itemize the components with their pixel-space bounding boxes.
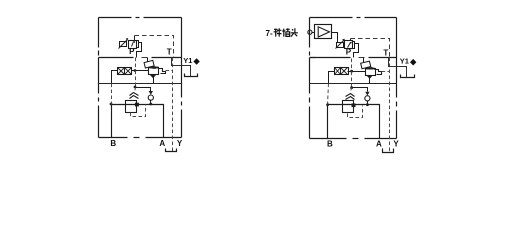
outer enclosure boundary box (right block) bbox=[310, 17, 353, 19]
svg-text:Y1: Y1 bbox=[400, 57, 409, 66]
relief valve drain line with arrow (left block) bbox=[153, 75, 155, 84]
pilot line down to spring chamber (right block) bbox=[351, 72, 353, 88]
pilot relief valve supply stub (right block) bbox=[363, 58, 365, 63]
dashed pilot section box (right block) bbox=[351, 39, 390, 58]
Y drain dashed line (left block) bbox=[172, 58, 174, 152]
pilot relief valve tilted pilot box (right block) bbox=[361, 61, 371, 69]
junction dot at check valve outlet (left block) bbox=[149, 103, 152, 106]
check valve branch wire (right block) bbox=[352, 88, 368, 92]
solenoid actuator of pilot valve (right block) bbox=[337, 43, 344, 48]
pilot line from gallery to B branch (right block) bbox=[328, 84, 329, 105]
svg-text:Y1: Y1 bbox=[183, 56, 192, 65]
counterbalance pilot loop (right block) bbox=[348, 106, 363, 118]
junction dot at spring pilot node (right block) bbox=[350, 86, 353, 89]
check valve branch wire (left block) bbox=[136, 88, 151, 92]
pilot relief valve spring steps (right block) bbox=[375, 70, 382, 75]
orifice left lead wire (right block) bbox=[329, 72, 335, 84]
svg-text:B: B bbox=[327, 140, 333, 149]
pilot line from gallery to B branch (left block) bbox=[111, 84, 113, 105]
junction dot at orifice outlet (left block) bbox=[134, 69, 137, 72]
left-edge patch wires (right block) bbox=[310, 57, 316, 59]
pilot relief valve body (left block) bbox=[149, 68, 159, 75]
svg-text:A: A bbox=[376, 140, 382, 149]
Y drain dashed line (right block) bbox=[389, 58, 391, 152]
B port stem (right block) bbox=[327, 105, 329, 139]
diamond marker next to Y1 (left block) bbox=[193, 58, 199, 65]
check valve ball and seat (right block) bbox=[365, 92, 369, 96]
counterbalance valve body (right block) bbox=[343, 101, 354, 113]
svg-text:Y: Y bbox=[393, 140, 399, 149]
P-T supply line (right block) bbox=[310, 57, 351, 59]
pilot relief valve body (right block) bbox=[366, 69, 376, 76]
counterbalance pilot loop (left block) bbox=[131, 105, 146, 117]
amplifier U1 box bbox=[315, 25, 332, 39]
relief valve outlet dashed line (right block) bbox=[382, 71, 390, 73]
svg-text:Y: Y bbox=[177, 139, 183, 148]
label glyph 插 bbox=[282, 28, 290, 36]
counterbalance valve body (left block) bbox=[126, 101, 137, 113]
pilot line down to spring chamber (left block) bbox=[135, 71, 137, 88]
wire from connector to amplifier bbox=[313, 32, 315, 34]
connector circle on enclosure edge (7-pin plug) bbox=[308, 30, 312, 34]
orifice with filter (right block) bbox=[335, 68, 349, 75]
diamond marker next to Y1 (right block) bbox=[410, 59, 416, 66]
pilot control line from valve to gallery (left block) bbox=[135, 58, 137, 71]
Y port symbol at bottom (left block) bbox=[166, 149, 177, 152]
pilot pressure-reducing valve body (right block) bbox=[345, 41, 353, 49]
svg-text:7-: 7- bbox=[266, 29, 273, 38]
pilot relief valve spring steps (left block) bbox=[159, 69, 166, 74]
wire from orifice junction to relief inlet (right block) bbox=[352, 71, 366, 73]
svg-text:B: B bbox=[110, 139, 116, 148]
svg-text:A: A bbox=[159, 139, 165, 148]
Y1 pilot port branch wire (right block) bbox=[389, 58, 407, 78]
main service line B to A (left block) bbox=[112, 105, 164, 138]
Y1 pilot port branch wire (left block) bbox=[172, 58, 191, 77]
Y port symbol at bottom (right block) bbox=[383, 149, 394, 153]
junction dot at check valve outlet (right block) bbox=[366, 103, 369, 106]
counterbalance valve poppet (solid) (left block) bbox=[135, 103, 139, 107]
pilot relief valve tilted pilot box (left block) bbox=[144, 60, 154, 68]
label glyph 针 bbox=[274, 28, 282, 36]
orifice right lead wire (right block) bbox=[348, 71, 352, 73]
svg-text:T: T bbox=[167, 48, 172, 57]
junction dot at spring pilot node (left block) bbox=[134, 86, 137, 89]
pilot valve spring-return loop (right block) bbox=[354, 44, 359, 58]
wire from orifice junction to relief inlet (left block) bbox=[136, 70, 149, 72]
P-T supply line (left block) bbox=[99, 57, 134, 59]
pilot relief valve supply stub (left block) bbox=[147, 58, 149, 62]
internal gallery line (right block) bbox=[310, 83, 397, 85]
pilot pressure-reducing valve body (left block) bbox=[129, 41, 137, 49]
spring of counterbalance valve (right block) bbox=[346, 94, 355, 97]
outer enclosure boundary box (left block) bbox=[99, 17, 132, 19]
pilot valve spring-return loop (left block) bbox=[137, 43, 142, 58]
pilot control line from valve to gallery (right block) bbox=[351, 59, 353, 72]
orifice left lead wire (left block) bbox=[112, 71, 118, 84]
orifice right lead wire (left block) bbox=[132, 70, 136, 72]
junction dot at orifice outlet (right block) bbox=[350, 70, 353, 73]
wire from amplifier to solenoid bbox=[332, 33, 338, 43]
spring of counterbalance valve (left block) bbox=[130, 93, 139, 96]
main service line B to A (right block) bbox=[328, 105, 380, 139]
orifice with filter (left block) bbox=[118, 68, 132, 75]
junction dot at B branch (left block) bbox=[110, 103, 113, 106]
dashed pilot section box (left block) bbox=[135, 36, 174, 58]
check valve lower wire (left block) bbox=[150, 101, 152, 105]
check valve lower wire (right block) bbox=[367, 101, 369, 105]
counterbalance valve poppet (solid) (right block) bbox=[352, 103, 356, 107]
solenoid actuator of pilot valve (left block) bbox=[120, 42, 127, 47]
Y1 port symbol (right block) bbox=[401, 75, 415, 78]
check valve ball and seat (left block) bbox=[149, 91, 153, 95]
relief valve outlet dashed line (left block) bbox=[166, 70, 173, 72]
Y1 port symbol (left block) bbox=[185, 74, 198, 77]
B port stem (left block) bbox=[111, 105, 113, 138]
pilot valve top connection stub (left block) bbox=[134, 36, 136, 41]
pilot valve top connection stub (right block) bbox=[350, 39, 352, 41]
svg-text:T: T bbox=[383, 48, 388, 57]
label glyph 头 bbox=[291, 28, 298, 36]
amplifier triangle symbol bbox=[318, 27, 329, 37]
relief valve drain line with arrow (right block) bbox=[369, 76, 371, 84]
internal gallery line (left block) bbox=[99, 83, 182, 85]
junction dot at B branch (right block) bbox=[326, 103, 329, 106]
